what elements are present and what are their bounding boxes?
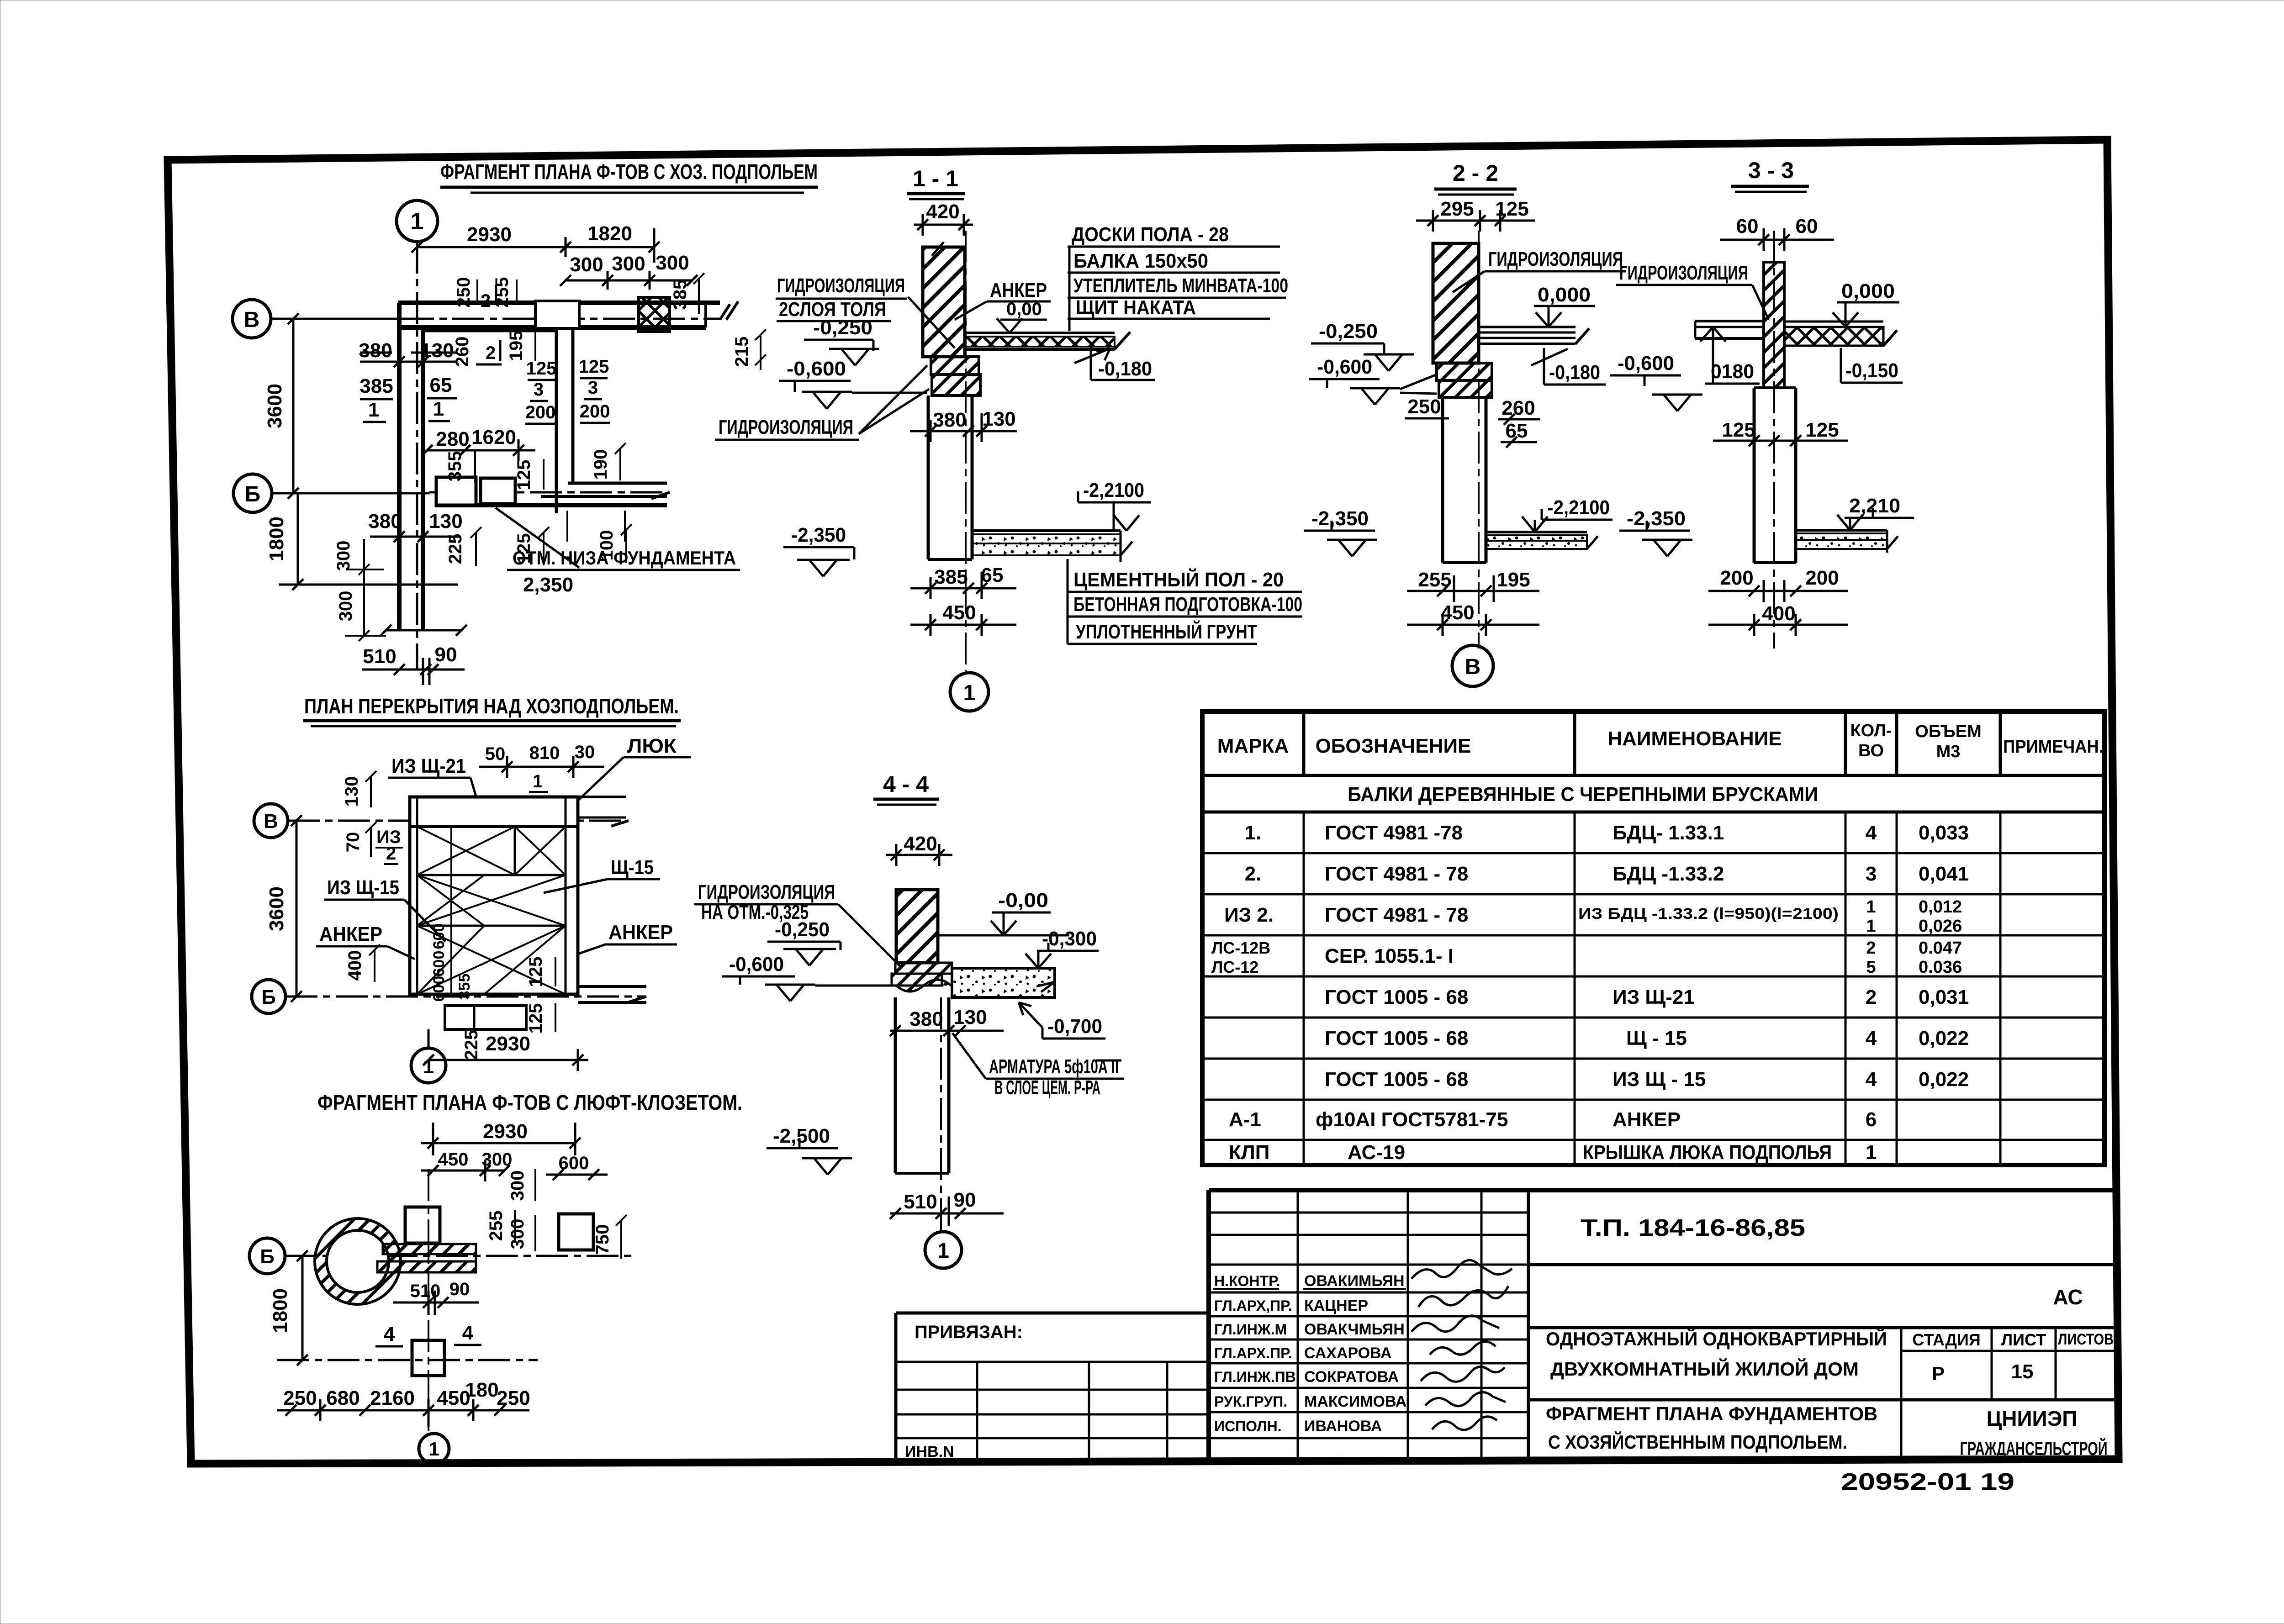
svg-text:-2,350: -2,350 <box>1627 507 1686 530</box>
title block grid <box>1209 1190 2116 1461</box>
dim 380 / 130 (upper left wall) <box>359 339 457 367</box>
svg-text:2: 2 <box>386 844 396 864</box>
svg-text:Б: Б <box>245 482 261 506</box>
svg-text:-0,180: -0,180 <box>1098 358 1152 380</box>
svg-text:1: 1 <box>368 399 379 421</box>
level -0,600 (4-4) <box>722 953 894 1001</box>
svg-text:ЛЮК: ЛЮК <box>627 735 677 757</box>
annotation БАЛКА 150х50 <box>1068 250 1280 273</box>
svg-text:Б: Б <box>261 986 276 1008</box>
section 2-2 waterproofing block (hatched) <box>1437 363 1492 397</box>
dim 2930 (luft plan) <box>421 1120 581 1155</box>
svg-text:90: 90 <box>435 643 457 666</box>
label ГИДРОИЗОЛЯЦИЯ (2-2) <box>1453 248 1626 292</box>
svg-text:2,210: 2,210 <box>1849 495 1900 517</box>
dim 450 (2-2 bottom) <box>1407 601 1539 636</box>
svg-text:300: 300 <box>508 1171 528 1201</box>
rotated dim 125 (below Б wall) <box>514 511 567 565</box>
axis vertical through squares <box>428 1169 429 1431</box>
table row 9 <box>1229 1141 1877 1164</box>
level -0,300 (4-4) <box>1026 928 1099 968</box>
dim 380 / 130 below Б (left column) <box>368 510 462 542</box>
dim 0180 with up arrow (3-3) <box>1700 327 1760 384</box>
svg-text:ОДНОЭТАЖНЫЙ ОДНОКВАРТИРНЫЙ: ОДНОЭТАЖНЫЙ ОДНОКВАРТИРНЫЙ <box>1546 1328 1887 1350</box>
table row 2 <box>1245 863 1969 885</box>
svg-text:0,00: 0,00 <box>1006 299 1042 319</box>
dim 295 / 125 (section 2-2) <box>1416 198 1535 232</box>
svg-text:2930: 2930 <box>486 1033 530 1055</box>
label АНКЕР (left) <box>316 923 415 959</box>
svg-text:ФРАГМЕНТ ПЛАНА Ф-ТОВ С ХОЗ. ПО: ФРАГМЕНТ ПЛАНА Ф-ТОВ С ХОЗ. ПОДПОЛЬЕМ <box>440 160 818 184</box>
label АНКЕР with 0,00 level <box>955 279 1051 333</box>
label АНКЕР (right) <box>576 921 677 954</box>
svg-text:ДОСКИ ПОЛА - 28: ДОСКИ ПОЛА - 28 <box>1072 223 1229 246</box>
level -2,350 (3-3) <box>1619 507 1692 556</box>
svg-text:ЛИСТ: ЛИСТ <box>2001 1330 2046 1349</box>
svg-text:ОВАКИМЬЯН: ОВАКИМЬЯН <box>1304 1272 1405 1290</box>
level -2,350 (2-2) <box>1304 507 1377 556</box>
svg-text:125: 125 <box>1805 419 1839 441</box>
svg-text:-0,00: -0,00 <box>998 889 1048 912</box>
svg-text:1: 1 <box>1866 897 1876 917</box>
svg-text:1.: 1. <box>1245 822 1262 844</box>
axis circle 1 (4-4 bottom) <box>925 1232 962 1268</box>
svg-text:750: 750 <box>592 1224 613 1255</box>
level -0,250 (4-4) <box>767 918 841 965</box>
svg-text:ПРИМЕЧАН.: ПРИМЕЧАН. <box>2003 737 2104 757</box>
svg-text:1800: 1800 <box>265 517 288 561</box>
svg-text:-0,600: -0,600 <box>1317 356 1372 378</box>
svg-text:ГЛ.ИНЖ.ПВ: ГЛ.ИНЖ.ПВ <box>1214 1369 1296 1385</box>
svg-text:3: 3 <box>1866 863 1877 885</box>
svg-text:510: 510 <box>363 645 396 668</box>
svg-text:В: В <box>1465 655 1481 679</box>
wall opening rect <box>535 301 579 328</box>
svg-text:0,026: 0,026 <box>1919 917 1962 936</box>
svg-text:385: 385 <box>934 566 968 588</box>
partition dims 125 3 200 (right side) <box>579 357 610 423</box>
svg-text:-0,180: -0,180 <box>1549 361 1600 384</box>
plan title ПЛАН ПЕРЕКРЫТИЯ НАД ХОЗПОДПОЛЬЕМ <box>303 694 681 726</box>
svg-text:ГЛ.АРХ.ПР.: ГЛ.АРХ.ПР. <box>1214 1345 1292 1361</box>
svg-text:БДЦ -1.33.2: БДЦ -1.33.2 <box>1613 863 1724 885</box>
svg-text:225: 225 <box>445 534 465 564</box>
label ГИДРОИЗОЛЯЦИЯ (3-3) <box>1616 262 1769 320</box>
svg-text:30: 30 <box>575 742 595 762</box>
svg-text:ПРИВЯЗАН:: ПРИВЯЗАН: <box>915 1322 1023 1342</box>
label Гидроизоляция with fork leader <box>715 365 929 440</box>
section 1-1 waterproofing strips (hatched) <box>931 357 980 395</box>
svg-text:ГЛ.АРХ,ПР.: ГЛ.АРХ,ПР. <box>1214 1297 1292 1314</box>
svg-text:250: 250 <box>497 1387 530 1409</box>
section 1-1 wall column (hatched) <box>923 242 965 357</box>
level -0,700 (4-4) <box>1019 1002 1105 1039</box>
level -0,250 (left of section 1-1) <box>804 316 879 365</box>
svg-text:20952-01 19: 20952-01 19 <box>1841 1469 2014 1495</box>
svg-text:400: 400 <box>345 950 365 981</box>
svg-text:1: 1 <box>428 1438 439 1460</box>
svg-text:-2,2100: -2,2100 <box>1547 496 1610 519</box>
svg-text:385: 385 <box>670 279 690 310</box>
svg-text:0,022: 0,022 <box>1919 1068 1969 1091</box>
object name ОДНОЭТАЖНЫЙ ОДНОКВАРТИРНЫЙ ДВУХКОМНАТНЫЙ ЖИЛОЙ ДОМ <box>1546 1328 1887 1380</box>
svg-text:195: 195 <box>506 331 526 361</box>
svg-text:ЛС-12: ЛС-12 <box>1211 958 1258 976</box>
svg-text:УПЛОТНЕННЫЙ ГРУНТ: УПЛОТНЕННЫЙ ГРУНТ <box>1076 620 1257 643</box>
dims 450 300 (luft plan) <box>421 1149 512 1181</box>
basement slab (2-2) <box>1486 532 1598 549</box>
plan fragment title: ФРАГМЕНТ ПЛАНА Ф-ТОВ С ХОЗ.ПОДПОЛЬЕМ <box>440 160 818 193</box>
svg-text:ГИДРОИЗОЛЯЦИЯ: ГИДРОИЗОЛЯЦИЯ <box>777 274 905 297</box>
svg-text:60: 60 <box>1796 215 1818 237</box>
svg-text:1: 1 <box>937 1239 949 1262</box>
dim 1800 (luft plan vertical) <box>269 1250 308 1366</box>
section 3-3 partition column (hatched) <box>1764 262 1784 388</box>
svg-text:-0,600: -0,600 <box>1618 352 1674 374</box>
svg-text:ГОСТ 4981 - 78: ГОСТ 4981 - 78 <box>1325 863 1468 885</box>
svg-text:-0,600: -0,600 <box>729 953 784 975</box>
svg-text:ГОСТ 4981 -78: ГОСТ 4981 -78 <box>1325 822 1463 844</box>
svg-text:300: 300 <box>570 253 603 276</box>
bottom wall right segment <box>435 483 667 505</box>
annotation ЩИТ НАКАТА <box>1068 247 1270 331</box>
dim 450 (section 1-1 bottom) <box>910 601 1016 636</box>
svg-text:ФРАГМЕНТ ПЛАНА ФУНДАМЕНТОВ: ФРАГМЕНТ ПЛАНА ФУНДАМЕНТОВ <box>1546 1403 1877 1424</box>
svg-text:3 - 3: 3 - 3 <box>1748 158 1794 183</box>
rotated dim 300 (lowest left) <box>336 569 386 641</box>
rotated dim 130 (floor plan top left) <box>342 771 376 807</box>
svg-text:130: 130 <box>953 1006 987 1028</box>
svg-text:ЦНИИЭП: ЦНИИЭП <box>1987 1407 2078 1430</box>
axis circle В (2-2 bottom) <box>1452 645 1493 686</box>
dim 600 (luft plan right) <box>546 1153 608 1180</box>
dim 250 with fork (2-2) <box>1405 395 1449 418</box>
annotation ДОСКИ ПОЛА - 28 <box>1068 223 1280 247</box>
svg-text:Р: Р <box>1932 1363 1945 1384</box>
svg-text:1: 1 <box>1866 1141 1877 1164</box>
axis circle Б (luft plan) <box>249 1238 285 1274</box>
svg-text:125: 125 <box>526 957 546 987</box>
level -0,00 (4-4) <box>938 889 1069 935</box>
sheet name ФРАГМЕНТ ПЛАНА ФУНДАМЕНТОВ С ХОЗЯЙСТВЕННЫМ ПОДПОЛЬЕМ <box>1546 1403 1877 1453</box>
luft-klozet channel stem <box>377 1244 476 1272</box>
dim 400 (3-3 bottom) <box>1708 602 1848 636</box>
svg-text:295: 295 <box>1440 198 1474 220</box>
svg-text:ГИДРОИЗОЛЯЦИЯ: ГИДРОИЗОЛЯЦИЯ <box>719 416 853 438</box>
svg-text:БЕТОННАЯ ПОДГОТОВКА-100: БЕТОННАЯ ПОДГОТОВКА-100 <box>1073 593 1302 616</box>
axis Б line (floor plan) <box>285 997 646 1002</box>
level -0,600 (2-2) <box>1309 356 1437 405</box>
svg-text:-0,150: -0,150 <box>1845 359 1898 382</box>
svg-text:600: 600 <box>430 923 448 949</box>
section title 1-1 <box>907 166 965 199</box>
svg-text:РУК.ГРУП.: РУК.ГРУП. <box>1214 1393 1287 1410</box>
svg-text:ИЗ Щ - 15: ИЗ Щ - 15 <box>1613 1068 1706 1091</box>
level 0,000 (3-3) <box>1833 280 1899 327</box>
title block left table ПРИВЯЗАН <box>896 1313 1209 1461</box>
axis circle 1 (top plan) <box>397 200 438 242</box>
svg-text:ЩИТ НАКАТА: ЩИТ НАКАТА <box>1076 296 1196 319</box>
svg-text:4: 4 <box>384 1323 395 1345</box>
hatch opening rectangle (люк) <box>445 1006 526 1029</box>
dim 260 / 65 (2-2) <box>1498 397 1540 448</box>
bottom wall band (floor plan) <box>578 986 646 1002</box>
svg-text:ОБЪЕМ: ОБЪЕМ <box>1915 722 1981 741</box>
level -2,2100 (2-2) <box>1522 496 1613 532</box>
svg-text:1: 1 <box>423 1055 434 1078</box>
svg-text:2: 2 <box>1866 986 1877 1008</box>
svg-text:260: 260 <box>452 337 472 367</box>
svg-text:Н.КОНТР.: Н.КОНТР. <box>1214 1273 1280 1289</box>
svg-text:ИЗ 2.: ИЗ 2. <box>1224 904 1274 926</box>
svg-text:АС-19: АС-19 <box>1348 1141 1405 1164</box>
column square lower (luft plan) <box>412 1340 444 1376</box>
svg-text:А-1: А-1 <box>1229 1108 1261 1131</box>
svg-text:0,033: 0,033 <box>1919 822 1969 844</box>
dim 510 / 90 (luft plan) <box>393 1279 479 1315</box>
svg-text:200: 200 <box>1720 567 1753 589</box>
svg-text:ФРАГМЕНТ ПЛАНА Ф-ТОВ С ЛЮФТ-КЛ: ФРАГМЕНТ ПЛАНА Ф-ТОВ С ЛЮФТ-КЛОЗЕТОМ. <box>317 1091 742 1114</box>
svg-text:810: 810 <box>529 743 560 763</box>
svg-text:АНКЕР: АНКЕР <box>990 279 1047 301</box>
svg-text:1 - 1: 1 - 1 <box>913 166 958 191</box>
signatures (handwritten squiggles) <box>1412 1260 1512 1430</box>
svg-text:Б: Б <box>260 1245 275 1268</box>
rotated dim 400 (left bottom) <box>345 944 380 982</box>
rotated dim 260 / mark 2 (room upper left) <box>452 337 502 367</box>
svg-text:-2,500: -2,500 <box>773 1125 830 1147</box>
section 2-2 wall column (hatched) <box>1433 243 1479 363</box>
svg-text:280: 280 <box>436 428 469 450</box>
svg-text:В: В <box>244 308 260 332</box>
svg-text:-0,250: -0,250 <box>775 918 830 941</box>
dimension 2930 / 1820 <box>412 222 660 263</box>
svg-text:4: 4 <box>1866 1027 1877 1049</box>
svg-text:ИСПОЛН.: ИСПОЛН. <box>1214 1418 1282 1434</box>
level -2,2100 with arrow <box>1078 479 1151 531</box>
dim 510 / 90 (4-4 bottom) <box>890 1189 1004 1226</box>
rotated dim 215 (below wall right) <box>732 329 766 370</box>
table row 1 <box>1245 822 1969 844</box>
svg-text:АС: АС <box>2053 1285 2083 1309</box>
svg-text:0.036: 0.036 <box>1919 958 1962 977</box>
dimension 3600 (vertical) <box>264 313 320 499</box>
svg-text:260: 260 <box>1502 397 1535 419</box>
deck X bracing row3 <box>417 926 566 994</box>
svg-text:4 - 4: 4 - 4 <box>883 771 929 797</box>
table row 5 <box>1325 986 1969 1008</box>
svg-text:МАКСИМОВА: МАКСИМОВА <box>1304 1393 1406 1410</box>
svg-text:380: 380 <box>909 1008 943 1030</box>
basement floor slab (section 1-1) <box>972 531 1132 562</box>
svg-text:300: 300 <box>333 541 354 571</box>
svg-text:2: 2 <box>486 343 496 363</box>
luft-klozet ring (hatched annulus) <box>315 1218 401 1304</box>
rotated dims 600 600 600 (inside deck left) <box>430 923 448 1002</box>
svg-text:БАЛКА 150х50: БАЛКА 150х50 <box>1073 250 1208 272</box>
svg-text:250: 250 <box>1407 395 1441 418</box>
section 3-3 axis dash-dot <box>1773 231 1775 649</box>
svg-text:-0,600: -0,600 <box>787 358 846 380</box>
svg-text:225: 225 <box>461 1030 481 1060</box>
axis В horizontal line <box>271 318 720 320</box>
svg-text:125: 125 <box>579 357 609 377</box>
deck X bracing row2 <box>417 875 566 926</box>
section 2-2 axis dash-dot <box>1478 231 1480 649</box>
svg-text:450: 450 <box>438 1149 469 1170</box>
svg-text:600: 600 <box>430 951 448 977</box>
rotated dim 125 (above Б wall) <box>514 459 544 490</box>
svg-text:2,350: 2,350 <box>523 574 573 596</box>
svg-text:ГИДРОИЗОЛЯЦИЯ: ГИДРОИЗОЛЯЦИЯ <box>698 881 835 903</box>
rotated dim 195 (partition top) <box>506 330 535 361</box>
svg-text:В СЛОЕ ЦЕМ. Р-РА: В СЛОЕ ЦЕМ. Р-РА <box>994 1076 1100 1099</box>
signature column labels <box>1213 1272 1406 1435</box>
table row 7 <box>1325 1068 1969 1091</box>
level -0,150 (3-3) <box>1841 348 1903 383</box>
axis В line (floor plan) <box>288 821 629 826</box>
rotated dim 355 <box>445 450 475 482</box>
svg-text:200: 200 <box>580 401 610 422</box>
annotation УПЛОТНЕННЫЙ ГРУНТ <box>1068 559 1257 644</box>
rotated dims 250 2 255 above top wall <box>454 277 517 311</box>
level -0,600 (3-3) <box>1610 352 1702 411</box>
axis circle Б (floor plan) <box>252 980 285 1013</box>
svg-text:С ХОЗЯЙСТВЕННЫМ ПОДПОЛЬЕМ.: С ХОЗЯЙСТВЕННЫМ ПОДПОЛЬЕМ. <box>1548 1431 1847 1453</box>
section title 2-2 <box>1434 160 1517 195</box>
svg-text:БДЦ- 1.33.1: БДЦ- 1.33.1 <box>1613 822 1724 844</box>
axis circle В (top plan) <box>233 300 271 338</box>
axis circle 1 (luft plan bottom) <box>419 1434 449 1464</box>
section 3-3 foundation column <box>1754 388 1796 563</box>
svg-text:ИЗ Щ-21: ИЗ Щ-21 <box>1613 986 1695 1008</box>
svg-text:2160: 2160 <box>370 1387 415 1409</box>
section 4-4 wall column (hatched) <box>896 890 938 963</box>
svg-text:65: 65 <box>981 564 1004 586</box>
dim 510 / 90 (bottom of plan) <box>362 643 465 685</box>
svg-text:ЛС-12В: ЛС-12В <box>1211 939 1270 957</box>
svg-text:1: 1 <box>433 398 444 420</box>
table row 4 <box>1211 939 1962 977</box>
svg-text:300: 300 <box>612 253 645 275</box>
svg-text:НАИМЕНОВАНИЕ: НАИМЕНОВАНИЕ <box>1607 728 1782 750</box>
svg-text:250: 250 <box>454 277 474 308</box>
svg-text:АНКЕР: АНКЕР <box>1613 1108 1681 1131</box>
svg-text:-0,300: -0,300 <box>1042 928 1097 950</box>
rotated dim 300 (luft) <box>508 1169 535 1201</box>
rotated dim 190 (right room) <box>591 443 626 480</box>
svg-text:КРЫШКА ЛЮКА ПОДПОЛЬЯ: КРЫШКА ЛЮКА ПОДПОЛЬЯ <box>1583 1141 1832 1164</box>
svg-text:130: 130 <box>429 510 462 533</box>
svg-text:СТАДИЯ: СТАДИЯ <box>1912 1330 1981 1349</box>
svg-text:0,022: 0,022 <box>1919 1027 1969 1049</box>
partition dims 125 3 200 (left side) <box>525 359 557 424</box>
axis circle Б (top plan) <box>233 474 272 512</box>
axis Б line (luft plan) <box>285 1255 632 1257</box>
label ГИДРОИЗОЛЯЦИЯ 2СЛОЯ ТОЛЯ with leader <box>776 274 955 348</box>
annotation УТЕПЛИТЕЛЬ МИНВАТА-100 <box>1068 274 1288 298</box>
svg-text:5: 5 <box>1866 958 1876 977</box>
svg-text:4: 4 <box>462 1322 474 1344</box>
svg-text:0,000: 0,000 <box>1538 284 1591 306</box>
lower horizontal axis (luft plan) <box>277 1359 538 1361</box>
organization ЦНИИЭП ГРАЖДАНСЕЛЬСТРОЙ <box>1960 1407 2108 1459</box>
svg-text:ГОСТ 4981 - 78: ГОСТ 4981 - 78 <box>1325 904 1468 926</box>
axis circle 1 (section 1-1 bottom) <box>950 673 989 711</box>
svg-text:4: 4 <box>1866 1068 1877 1091</box>
dim 60 / 60 (3-3) <box>1720 215 1834 251</box>
section 4-4 foundation column <box>895 997 949 1173</box>
rotated dims 255 300 750 <box>486 1210 627 1259</box>
svg-text:ИЗ Щ-15: ИЗ Щ-15 <box>327 876 399 899</box>
svg-text:КОЛ-: КОЛ- <box>1850 721 1892 740</box>
svg-text:60: 60 <box>1736 215 1759 237</box>
svg-text:450: 450 <box>942 601 976 624</box>
svg-text:0,000: 0,000 <box>1841 280 1895 302</box>
svg-text:-0,250: -0,250 <box>813 316 872 339</box>
svg-text:300: 300 <box>656 252 689 274</box>
section 2-2 foundation column <box>1443 397 1486 563</box>
axis circle В (floor plan) <box>254 804 288 838</box>
svg-text:130: 130 <box>342 776 362 807</box>
annotation БЕТОННАЯ ПОДГОТОВКА-100 <box>1068 593 1302 617</box>
level -2,350 (left of section 1-1) <box>783 524 854 576</box>
section title 4-4 <box>873 771 939 805</box>
section 1-1 axis dash-dot <box>965 231 967 671</box>
level 2,210 (3-3) <box>1837 495 1914 530</box>
svg-text:САХАРОВА: САХАРОВА <box>1304 1345 1392 1362</box>
section title 3-3 <box>1731 158 1809 192</box>
svg-text:65: 65 <box>430 374 452 396</box>
svg-text:2930: 2930 <box>467 223 512 246</box>
section 4-4 axis dash-dot <box>940 997 942 1232</box>
svg-text:ДВУХКОМНАТНЫЙ ЖИЛОЙ ДОМ: ДВУХКОМНАТНЫЙ ЖИЛОЙ ДОМ <box>1550 1358 1859 1380</box>
floor slab right crosshatched (3-3) <box>1784 322 1897 346</box>
level -2,500 (right) <box>767 1125 852 1175</box>
svg-text:ЦЕМЕНТНЫЙ ПОЛ - 20: ЦЕМЕНТНЫЙ ПОЛ - 20 <box>1073 568 1284 591</box>
annotation ЦЕМЕНТНЫЙ ПОЛ - 20 <box>1068 568 1302 592</box>
svg-text:КЛП: КЛП <box>1229 1141 1269 1164</box>
svg-text:ОТМ. НИЗА ФУНДАМЕНТА: ОТМ. НИЗА ФУНДАМЕНТА <box>513 547 736 569</box>
svg-text:1: 1 <box>1866 917 1876 936</box>
svg-text:-2,2100: -2,2100 <box>1083 479 1144 501</box>
rotated dim 300 (lower left) <box>333 539 384 575</box>
svg-text:1: 1 <box>963 681 976 705</box>
svg-text:125: 125 <box>1722 419 1755 441</box>
label АРМАТУРА 5ф10А II / В СЛОЕ ЦЕМ. Р-РА <box>952 1033 1124 1099</box>
deck X bracing row1 <box>417 827 566 875</box>
table grid <box>1202 712 2104 1165</box>
svg-text:ГОСТ 1005 - 68: ГОСТ 1005 - 68 <box>1325 1068 1468 1091</box>
partition wall (vertical, 125) <box>556 327 573 513</box>
leader and note ОТМ.НИЗА ФУНДАМЕНТА <box>496 508 740 596</box>
column square upper (luft plan) <box>405 1207 440 1243</box>
svg-text:0180: 0180 <box>1711 360 1754 383</box>
svg-text:190: 190 <box>591 449 611 480</box>
svg-text:АНКЕР: АНКЕР <box>319 923 382 945</box>
svg-text:Т.П. 184-16-86,85: Т.П. 184-16-86,85 <box>1581 1215 1805 1241</box>
dim 385 / 65 (section 1-1 bottom) <box>910 564 1016 599</box>
svg-text:СЕР. 1055.1- I: СЕР. 1055.1- I <box>1325 945 1454 967</box>
section 4-4 waterproofing strips <box>892 963 952 991</box>
svg-text:600: 600 <box>430 976 448 1002</box>
anchor block on top wall (crosshatched) <box>639 297 670 332</box>
section marks 4 - 4 <box>375 1322 481 1346</box>
svg-text:3600: 3600 <box>264 384 286 428</box>
svg-text:ВО: ВО <box>1858 741 1884 760</box>
svg-text:3: 3 <box>588 378 598 398</box>
section mark 1 with 385 (left) <box>360 375 393 422</box>
